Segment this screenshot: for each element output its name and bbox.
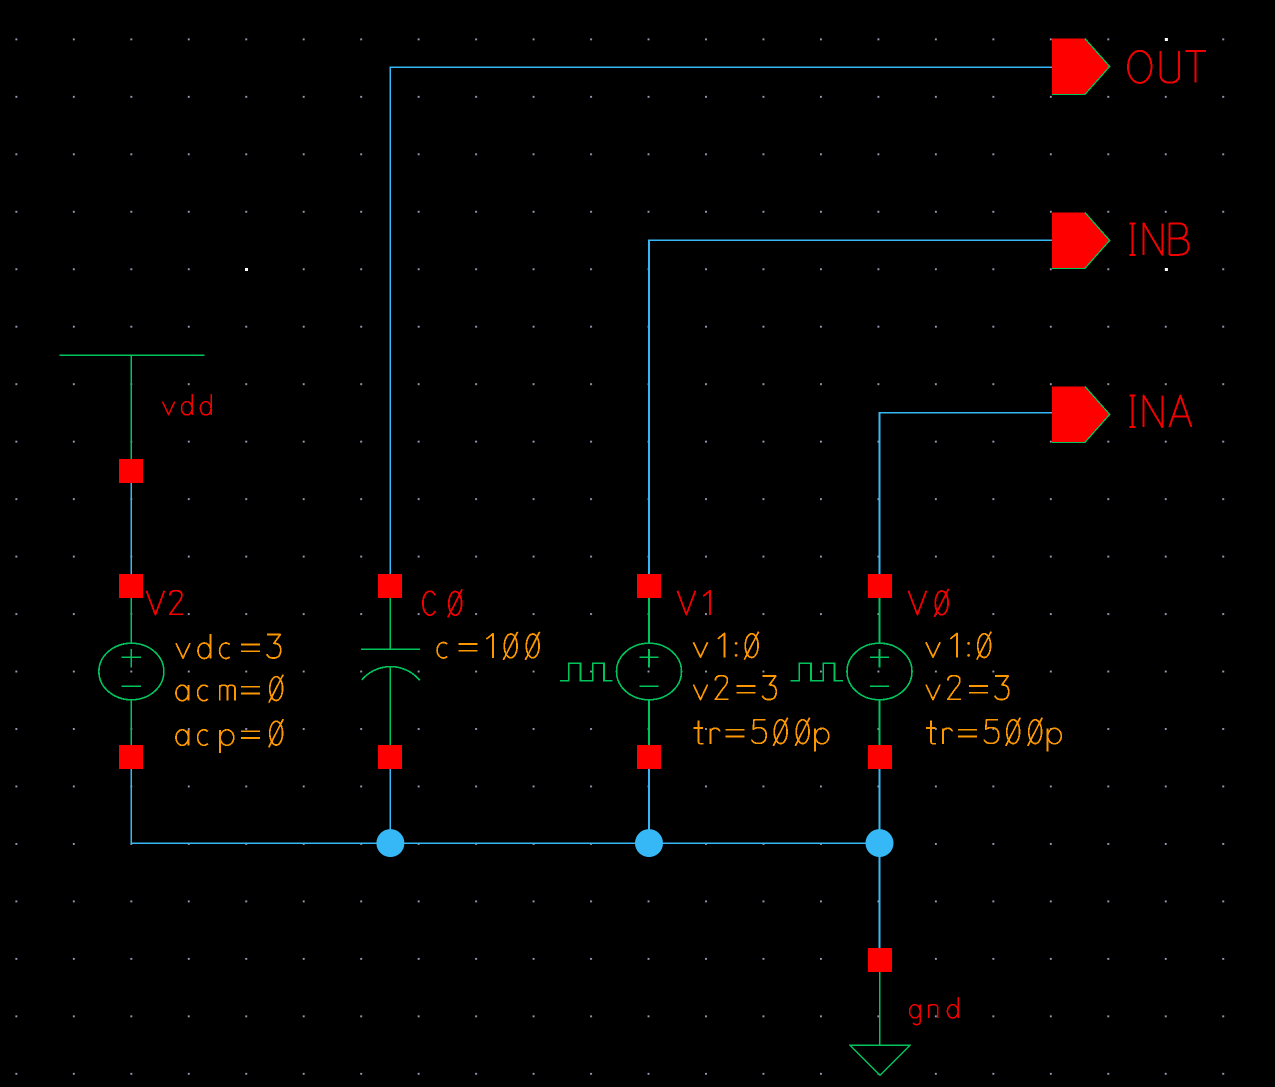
port symbol OUT — [1052, 39, 1110, 95]
pulse source V1 (vpulse) — [617, 586, 682, 757]
wire gnd bus — [131, 757, 879, 843]
capacitor C0 — [361, 586, 420, 757]
instance label V0 — [908, 589, 948, 617]
value vdc=3 — [176, 634, 281, 658]
voltage source V2 (vdc) — [99, 586, 164, 757]
value v1:0 (V1) — [693, 632, 758, 660]
value tr=500p (V0) — [926, 718, 1061, 752]
wire INB net — [649, 240, 1052, 586]
wire C0 to bus — [389, 757, 391, 843]
value acp=0 — [176, 719, 283, 753]
instance label C0 — [423, 589, 462, 617]
pin square vdd symbol — [119, 459, 143, 483]
value v2=3 (V1) — [693, 676, 776, 700]
value c=100 — [437, 632, 540, 660]
wire V0 to bus — [879, 757, 881, 843]
pin square V2 plus — [119, 574, 143, 598]
pin square V1 minus — [637, 745, 661, 769]
net label vdd — [162, 394, 211, 415]
wire bus to gnd — [879, 843, 881, 961]
pin square V0 plus — [868, 574, 892, 598]
value v2=3 (V0) — [926, 676, 1009, 700]
wire OUT net — [390, 67, 1051, 586]
pulse waveform icon of V0 — [790, 663, 843, 681]
pin square V0 minus — [868, 745, 892, 769]
power symbol vdd — [59, 355, 204, 470]
wire vdd net — [130, 470, 132, 586]
wire INA net — [880, 413, 1052, 587]
instance label V1 — [677, 591, 710, 615]
junction at C0/bus — [376, 829, 404, 857]
pin square gnd symbol — [868, 948, 892, 972]
value acm=0 — [176, 675, 283, 703]
value v1:0 (V0) — [926, 632, 991, 660]
junction at V0/bus — [866, 829, 894, 857]
port label INA — [1130, 396, 1192, 427]
junction at V1/bus — [635, 829, 663, 857]
pin square C0 bottom — [378, 745, 402, 769]
pin square V1 plus — [637, 574, 661, 598]
pin square V2 minus — [119, 745, 143, 769]
port label INB — [1130, 223, 1189, 254]
net label gnd — [910, 997, 959, 1025]
ground symbol gnd — [850, 972, 911, 1075]
port label OUT — [1128, 51, 1206, 83]
port symbol INA — [1052, 386, 1110, 442]
pulse source V0 (vpulse) — [847, 586, 912, 757]
pulse waveform icon of V1 — [560, 663, 613, 681]
instance label V2 — [146, 591, 183, 615]
wire V1 to bus — [648, 757, 650, 843]
port symbol INB — [1052, 212, 1110, 268]
pin square C0 top — [378, 574, 402, 598]
value tr=500p (V1) — [694, 718, 829, 752]
